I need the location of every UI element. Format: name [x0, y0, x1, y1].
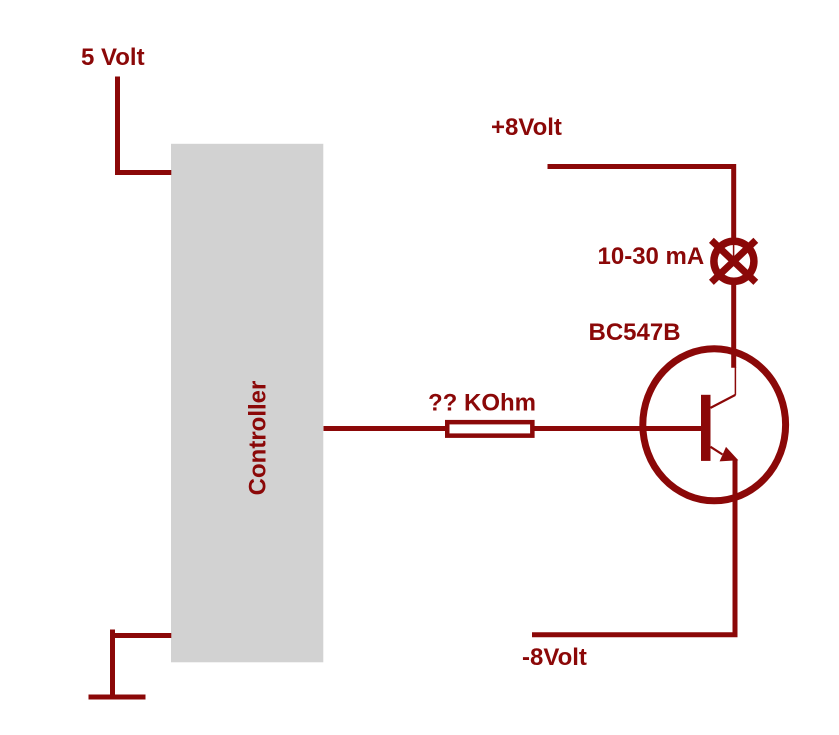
svg-text:?? KOhm: ?? KOhm [428, 390, 536, 417]
svg-text:+8Volt: +8Volt [491, 114, 562, 141]
svg-text:BC547B: BC547B [589, 319, 681, 346]
svg-text:Controller: Controller [245, 381, 272, 496]
svg-text:5 Volt: 5 Volt [81, 44, 145, 71]
svg-text:-8Volt: -8Volt [522, 644, 587, 671]
svg-text:10-30 mA: 10-30 mA [598, 243, 705, 270]
